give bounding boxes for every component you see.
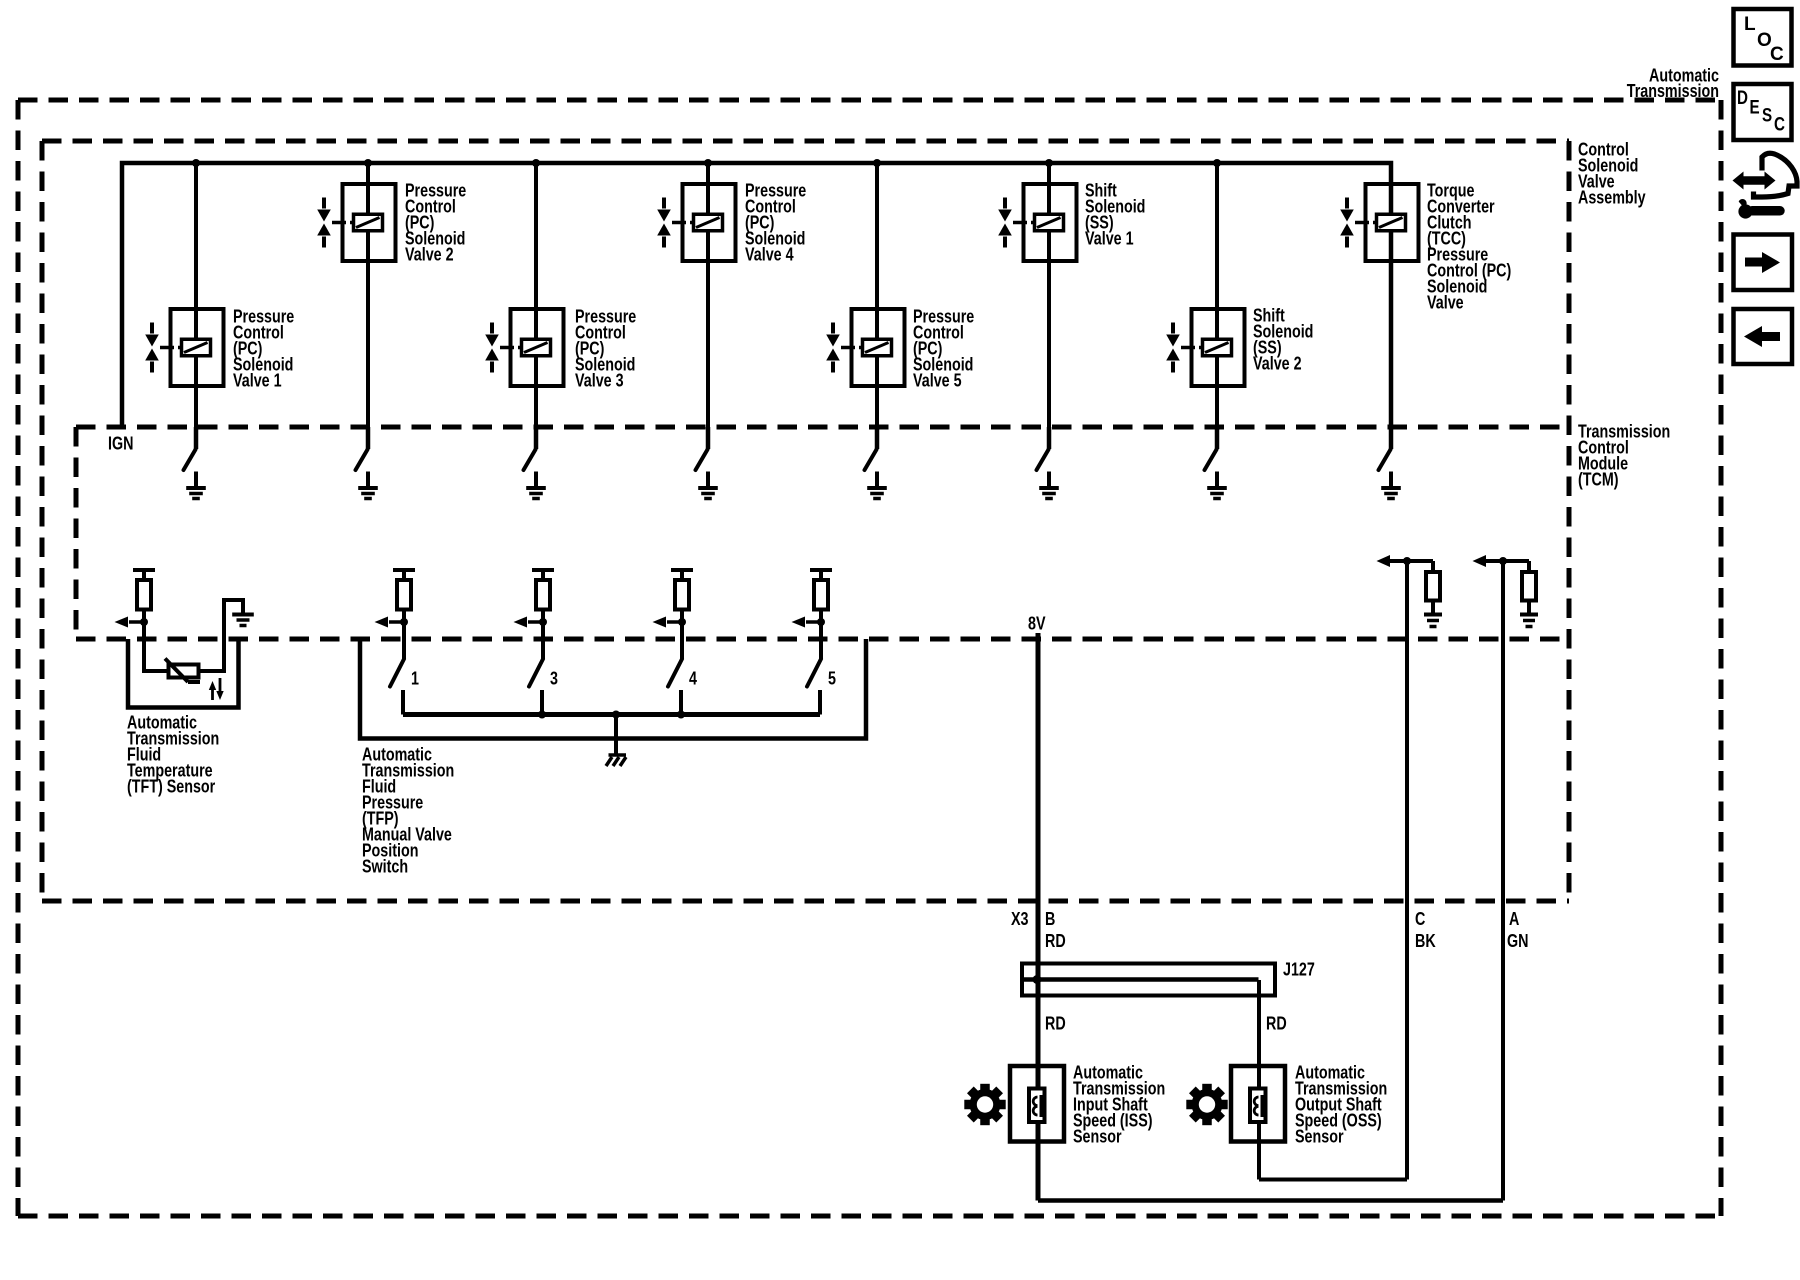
svg-text:A: A [1509,908,1519,929]
svg-text:Valve 5: Valve 5 [913,370,962,391]
svg-text:Switch: Switch [362,856,408,877]
svg-text:B: B [1045,908,1055,929]
svg-text:4: 4 [689,668,698,689]
svg-text:Valve 1: Valve 1 [233,370,282,391]
svg-text:L: L [1744,14,1756,35]
svg-text:Valve 3: Valve 3 [575,370,624,391]
svg-text:Assembly: Assembly [1578,187,1646,208]
svg-text:Valve: Valve [1427,292,1464,313]
svg-text:RD: RD [1266,1013,1287,1034]
svg-text:Transmission: Transmission [1627,80,1719,101]
svg-text:1: 1 [411,668,419,689]
svg-text:Valve 4: Valve 4 [745,244,794,265]
svg-text:5: 5 [828,668,836,689]
svg-text:8V: 8V [1028,613,1046,634]
svg-text:3: 3 [550,668,558,689]
svg-text:RD: RD [1045,1013,1066,1034]
svg-text:C: C [1770,44,1784,65]
svg-text:Sensor: Sensor [1295,1126,1344,1147]
svg-text:BK: BK [1415,930,1436,951]
svg-text:IGN: IGN [108,433,133,454]
svg-text:Valve 2: Valve 2 [405,244,454,265]
svg-text:C: C [1415,908,1425,929]
svg-text:RD: RD [1045,930,1066,951]
svg-text:C: C [1774,113,1785,135]
svg-text:S: S [1762,104,1772,126]
svg-text:D: D [1737,86,1748,108]
svg-text:E: E [1750,96,1760,118]
svg-text:Valve 2: Valve 2 [1253,353,1302,374]
svg-text:J127: J127 [1283,959,1315,980]
svg-text:(TFT) Sensor: (TFT) Sensor [127,776,216,797]
svg-text:GN: GN [1507,930,1528,951]
svg-text:Sensor: Sensor [1073,1126,1122,1147]
svg-text:Valve 1: Valve 1 [1085,228,1134,249]
svg-text:(TCM): (TCM) [1578,469,1619,490]
svg-text:X3: X3 [1011,908,1029,929]
